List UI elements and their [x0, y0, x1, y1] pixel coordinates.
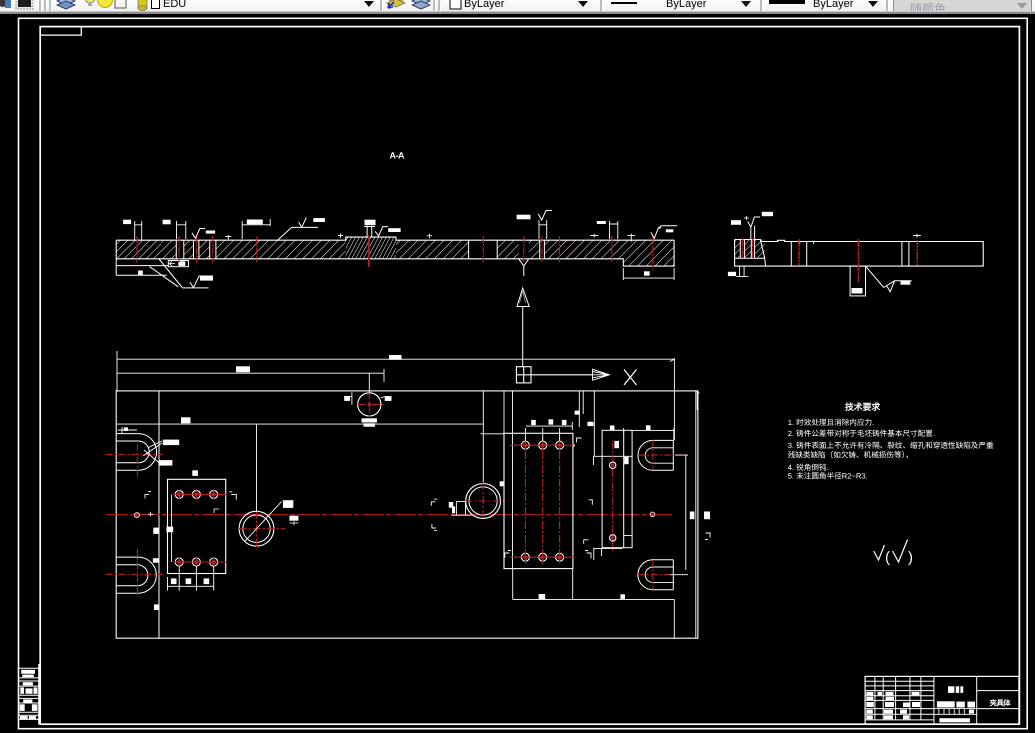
- roughness summary mark: [874, 545, 885, 560]
- dim 2: [177, 221, 186, 239]
- left plate bolts top row: [177, 493, 227, 495]
- chamfer diagonal and finish symbol: [866, 266, 912, 292]
- left bolt plate: [168, 479, 226, 573]
- circle C1: [239, 511, 274, 546]
- left plate bolts bottom row: [177, 561, 227, 563]
- finish symbol at 543: [538, 211, 552, 221]
- bar left end: [115, 240, 117, 259]
- hole gap 5: [519, 239, 529, 260]
- dim 3: [242, 219, 270, 239]
- small white cross near left node: [148, 512, 154, 517]
- svg-text:残缺类缺陷（如欠铸、机械损伤等），: 残缺类缺陷（如欠铸、机械损伤等），: [788, 451, 913, 460]
- central plate bolts: [510, 444, 575, 446]
- red centerlines of section: [137, 235, 653, 270]
- right column rows: [977, 690, 1019, 692]
- central plate to top edge: [504, 391, 513, 433]
- central plate red column lines: [525, 437, 559, 564]
- red node right: [650, 512, 655, 517]
- right narrow plate: [602, 430, 632, 547]
- corner brackets around top row: [145, 492, 151, 499]
- printer icon: [137, 0, 149, 12]
- sun icon: [97, 0, 114, 10]
- top-left grid box: [40, 27, 81, 35]
- finish symbol left-mid: [277, 218, 318, 241]
- right U-slot top: [638, 440, 673, 470]
- hanging box: [850, 266, 865, 296]
- left grid text blobs: [866, 692, 873, 696]
- middle cell rows: [937, 701, 955, 707]
- left U-slot top centerlines: [106, 454, 163, 456]
- inner left vertical: [158, 391, 160, 638]
- main red centerline: [106, 514, 674, 516]
- svg-text:技术要求: 技术要求: [845, 402, 880, 412]
- stray text blobs left: [153, 558, 159, 563]
- central plate: [504, 433, 573, 568]
- svg-text:5. 未注圆角半径R2~R3.: 5. 未注圆角半径R2~R3.: [788, 472, 868, 481]
- left small dim: [118, 427, 137, 433]
- finish symbol right block: [651, 226, 677, 239]
- finish symbol at 200: [192, 229, 205, 239]
- hole gap 1: [176, 239, 184, 260]
- svg-text:): ): [908, 549, 913, 566]
- title block outer: [865, 676, 1019, 724]
- bar outline top: [116, 237, 674, 240]
- hole gap 3: [210, 239, 216, 260]
- right assembly verticals from top: [579, 391, 594, 456]
- right dim vertical 2: [695, 391, 697, 638]
- red centerlines right view: [743, 238, 918, 282]
- layer color box + name: [150, 0, 161, 10]
- dim line y359: [117, 351, 674, 391]
- circle C2: [466, 484, 501, 519]
- V funnel below hole 5: [519, 259, 529, 276]
- svg-text:2. 铸件公差带对称于毛坯铸件基本尺寸配置.: 2. 铸件公差带对称于毛坯铸件基本尺寸配置.: [788, 429, 935, 438]
- right top extension verticals: [674, 358, 699, 440]
- U-slot labels: [143, 441, 162, 463]
- UCS icon: origin box: [516, 367, 531, 383]
- toolbar: [0, 0, 1035, 14]
- linetype dropdown: [611, 2, 637, 4]
- right deep block hatch: [623, 240, 674, 266]
- below narrow plate: [594, 548, 623, 560]
- hole gap 2: [194, 239, 199, 260]
- lineweight dropdown: [769, 0, 805, 4]
- layer dropdown arrow: [364, 1, 374, 7]
- left U-slot bottom: [116, 557, 156, 593]
- raised center block hatch: [346, 237, 396, 259]
- rotated texts near narrow plate: [614, 441, 619, 448]
- finish symbol top-left of right view: [748, 217, 760, 240]
- dim at 612: [610, 221, 618, 239]
- bottom-left rotated title strip: [38, 664, 40, 724]
- hole gap 6: [540, 239, 545, 260]
- bracket right: [705, 533, 710, 540]
- wedge detail below-left: [116, 259, 208, 288]
- lines below left block: [736, 266, 748, 277]
- dim on raised block: [365, 220, 376, 225]
- svg-text:(: (: [885, 549, 890, 566]
- main verticals: [875, 676, 977, 724]
- small chamfer marks on top edge: [225, 234, 921, 242]
- svg-text:3. 铸件表面上不允许有冷隔、裂纹、缩孔和穿透性缺陷及严重: 3. 铸件表面上不允许有冷隔、裂纹、缩孔和穿透性缺陷及严重: [788, 441, 994, 450]
- dim under right block: [623, 268, 674, 280]
- layers icon: [55, 0, 77, 12]
- bar outline bottom: [116, 240, 674, 266]
- tech requirements lines: [788, 418, 994, 481]
- left grid horizontals: [865, 681, 934, 720]
- left hatched block: [735, 240, 765, 259]
- segment verticals: [791, 242, 909, 267]
- svg-text:夹具体: 夹具体: [990, 698, 1012, 707]
- text blob under wedge: [138, 271, 143, 276]
- hatched bar body: [116, 240, 674, 259]
- right view main outline: [735, 240, 984, 267]
- layer previous icon: [410, 0, 432, 12]
- X axis label: [624, 370, 637, 386]
- left U-slot top: [116, 434, 156, 471]
- red node left: [134, 513, 139, 518]
- small ticks on top edge: [800, 242, 918, 245]
- below central plate: [513, 569, 675, 639]
- bulb icon: [84, 0, 96, 10]
- lock icon: [113, 0, 129, 10]
- dim right of C1: [289, 516, 298, 521]
- dim above central plate: [525, 422, 572, 441]
- color swatch icon: [14, 0, 36, 11]
- circle C3 top: [358, 393, 381, 416]
- svg-text:A-A: A-A: [390, 151, 405, 161]
- dim line y373: [117, 369, 384, 382]
- lines left of C2: [451, 501, 471, 515]
- thick red centerline at raised block: [368, 236, 370, 268]
- dim line y424: [117, 391, 483, 484]
- detail box with text: [168, 261, 188, 267]
- plan outline: [116, 391, 698, 638]
- dims below left plate: [168, 566, 214, 591]
- strip text blobs: [21, 670, 35, 674]
- left block inner lines: [735, 240, 766, 267]
- svg-text:1. 时效处理且消除内应力.: 1. 时效处理且消除内应力.: [788, 418, 875, 427]
- right dim vertical 1: [670, 455, 688, 575]
- finish symbol on wedge: [190, 276, 213, 288]
- right U-slot bottom: [638, 560, 673, 590]
- plot style dropdown (disabled): [893, 0, 1032, 16]
- finish symbol mid: [375, 227, 388, 236]
- middle: drawing number text: [948, 686, 954, 693]
- UCS icon: Y arrow: [517, 288, 529, 367]
- color dropdown: [449, 0, 463, 11]
- partial icon far left: [0, 0, 12, 9]
- hole walls: [176, 240, 544, 259]
- line from C2 to plate: [481, 433, 505, 435]
- brackets near central plate: [505, 551, 511, 558]
- left block hatch: [116, 240, 161, 259]
- UCS icon: X arrow: [531, 374, 593, 376]
- hole gap 4: [469, 239, 498, 260]
- make layer current icon: [385, 0, 407, 12]
- dim 1 left: [135, 221, 142, 240]
